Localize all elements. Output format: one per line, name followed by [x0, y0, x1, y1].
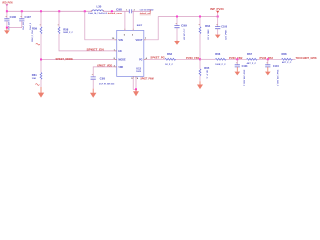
- wire EN: [59, 34, 117, 51]
- node rail-x22: [21, 10, 23, 12]
- svg-text:10K: 10K: [32, 78, 37, 80]
- no-connect tick rail end: [149, 10, 151, 13]
- capacitor C107: [19, 11, 32, 30]
- IC U13: [117, 30, 144, 76]
- svg-text:XPKET_VDD: XPKET_VDD: [97, 64, 112, 67]
- svg-text:100K_F_C0: 100K_F_C0: [206, 30, 208, 41]
- svg-text:100nF_X7R: 100nF_X7R: [224, 30, 226, 41]
- ground arrow R65: [197, 81, 203, 89]
- svg-text:6: 6: [137, 78, 139, 80]
- node rail2-x177: [176, 16, 178, 18]
- capacitor C95: [91, 77, 115, 89]
- svg-text:PV33_FB2: PV33_FB2: [229, 58, 243, 60]
- svg-text:1K_F_C: 1K_F_C: [206, 70, 208, 79]
- power flag INP_PV33: [210, 7, 224, 16]
- svg-text:L30: L30: [97, 5, 102, 8]
- node rail2-x200: [199, 16, 201, 18]
- wire VDD rail right of inductor: [103, 10, 129, 12]
- svg-text:1: 1: [126, 9, 127, 11]
- pin stub ticks IC: [115, 29, 146, 79]
- svg-text:4K7_F_C: 4K7_F_C: [282, 61, 292, 64]
- svg-text:C99: C99: [181, 25, 187, 28]
- node rail-x7: [6, 10, 8, 12]
- wire IC top pin 3: [132, 11, 134, 30]
- ground arrow C95: [90, 89, 96, 98]
- svg-text:560R_F_C: 560R_F_C: [63, 32, 73, 34]
- resistor R65 (FB lower): [199, 59, 210, 81]
- svg-text:INP_PV33: INP_PV33: [210, 7, 224, 11]
- svg-text:C100: C100: [221, 25, 227, 28]
- svg-text:VDD_PV50: VDD_PV50: [2, 2, 13, 5]
- wire VIN: [85, 11, 117, 40]
- svg-text:R61: R61: [32, 75, 38, 77]
- wire PG: [144, 58, 165, 60]
- svg-text:R64: R64: [205, 25, 211, 28]
- node rail2-x218: [217, 16, 219, 18]
- node FB2: [236, 58, 238, 60]
- power flag VDD_PV50: [2, 2, 13, 12]
- svg-text:100nF_X7R_0402_C: 100nF_X7R_0402_C: [276, 70, 279, 87]
- svg-text:R67: R67: [247, 54, 253, 56]
- wire R67 to node3: [257, 58, 281, 60]
- ground arrow C100: [215, 35, 221, 39]
- resistor R67: [247, 54, 258, 65]
- wire IC bottom pins: [133, 76, 136, 89]
- capacitor C99: [174, 17, 187, 41]
- resistor R59 (MODE divider top): [31, 11, 42, 59]
- node MODE divider: [40, 59, 42, 61]
- svg-text:R68: R68: [282, 54, 288, 56]
- svg-text:PV33_FB1: PV33_FB1: [186, 58, 200, 60]
- svg-text:4.7uF_HV_X5R_0603: 4.7uF_HV_X5R_0603: [99, 83, 115, 86]
- node rail-x112: [111, 10, 113, 12]
- capacitor C106: [4, 11, 16, 30]
- ground arrow IC: [133, 89, 139, 96]
- wire R66 to node2: [226, 58, 246, 60]
- svg-text:VIN: VIN: [118, 39, 123, 42]
- resistor R64 (PG pullup): [199, 17, 211, 60]
- node rail-x41: [40, 10, 42, 12]
- wire MODE: [41, 59, 117, 61]
- svg-text:MODE: MODE: [118, 59, 126, 62]
- node IC gnd: [135, 88, 137, 90]
- svg-text:SPKET_PG: SPKET_PG: [150, 58, 165, 60]
- capacitor C104: [265, 59, 279, 86]
- ground arrow left-input: [4, 28, 10, 34]
- ground arrow C104: [265, 67, 271, 76]
- no-ERC squiggle R59 bottom: [36, 43, 40, 45]
- wire PV33 rail: [158, 16, 218, 18]
- svg-text:SPKET_MODE: SPKET_MODE: [56, 58, 74, 61]
- node rail-x85: [84, 10, 86, 12]
- svg-text:4.7uF_25V_X5R: 4.7uF_25V_X5R: [183, 29, 186, 40]
- wire R68 out: [292, 58, 295, 60]
- capacitor C98 (series, top): [116, 8, 154, 13]
- resistor R61 (MODE divider bottom): [32, 60, 42, 88]
- svg-text:PV33_FB3: PV33_FB3: [260, 58, 274, 60]
- wire VDD rail left: [7, 10, 92, 12]
- svg-text:SPKET_EN: SPKET_EN: [87, 48, 105, 51]
- inductor L30: [88, 5, 108, 15]
- svg-text:4K7_F_C: 4K7_F_C: [247, 62, 257, 65]
- wire VDD pin to C95: [93, 67, 117, 77]
- svg-text:10uF_25V: 10uF_25V: [8, 21, 10, 30]
- svg-text:100K_F_C04: 100K_F_C04: [31, 30, 34, 42]
- node FB3: [267, 58, 269, 60]
- svg-text:10uF_25V: 10uF_25V: [23, 21, 25, 30]
- svg-text:C107: C107: [25, 16, 32, 19]
- ground arrow MODE divider: [38, 87, 44, 98]
- svg-text:100K_F_C: 100K_F_C: [215, 64, 226, 66]
- terminal tick marks: [6, 17, 268, 75]
- svg-text:2: 2: [134, 9, 135, 11]
- svg-text:1.5uH_1A_7.5x5.5x1.2: 1.5uH_1A_7.5x5.5x1.2: [88, 12, 108, 15]
- svg-text:SPKET_PWM: SPKET_PWM: [140, 78, 153, 80]
- svg-text:VDD: VDD: [118, 66, 123, 69]
- node gnd tie: [6, 27, 8, 29]
- wire gnd tie C106-C107: [7, 21, 22, 28]
- node FB: [199, 58, 201, 60]
- resistor R58 (EN pullup): [58, 11, 73, 34]
- svg-text:default_conn: default_conn: [108, 12, 123, 15]
- svg-text:EN: EN: [118, 50, 121, 53]
- resistor R63: [165, 54, 176, 66]
- wire R63 to node: [176, 58, 200, 60]
- svg-text:C95: C95: [100, 78, 106, 81]
- svg-text:R63: R63: [167, 54, 173, 56]
- capacitor C103: [235, 59, 248, 86]
- svg-text:PG: PG: [139, 59, 143, 62]
- svg-text:C104: C104: [273, 65, 279, 68]
- svg-text:VOUT: VOUT: [136, 39, 144, 42]
- svg-text:BST: BST: [137, 25, 143, 27]
- svg-text:1K_F_C: 1K_F_C: [165, 64, 174, 66]
- wire node to R66: [200, 58, 215, 60]
- svg-text:100nF_X7R_0402_C: 100nF_X7R_0402_C: [242, 70, 245, 87]
- node rail-x59: [58, 10, 60, 12]
- svg-text:R59: R59: [32, 28, 38, 30]
- wire VOUT riser: [144, 17, 158, 40]
- svg-text:R66: R66: [215, 54, 221, 56]
- svg-text:C106: C106: [10, 16, 17, 19]
- capacitor C100: [215, 17, 228, 41]
- resistor R68: [282, 54, 293, 64]
- svg-text:C103: C103: [242, 65, 248, 68]
- svg-text:default_con: default_con: [140, 12, 152, 15]
- wire IC top pin 5: [124, 11, 126, 30]
- svg-text:TOUCHINT_GPI8: TOUCHINT_GPI8: [296, 58, 318, 60]
- resistor R66: [215, 54, 226, 66]
- svg-text:0.1uF_16V_X7R_0402: 0.1uF_16V_X7R_0402: [140, 8, 154, 11]
- wire C98 right stub: [132, 10, 151, 12]
- ground arrow C103: [235, 67, 241, 76]
- svg-text:C98: C98: [116, 8, 122, 11]
- no-ERC squiggle R61 bottom: [35, 84, 39, 86]
- ground arrow C99: [174, 40, 180, 44]
